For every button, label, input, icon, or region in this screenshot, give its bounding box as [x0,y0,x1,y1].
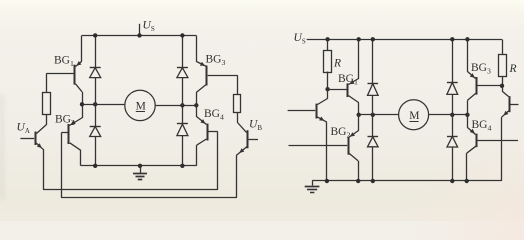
svg-text:UB: UB [249,119,262,132]
svg-text:US: US [294,32,306,45]
svg-text:BG2: BG2 [331,126,351,139]
svg-text:BG3: BG3 [471,62,491,75]
svg-text:M: M [409,110,419,122]
svg-text:R: R [333,58,341,70]
svg-text:BG3: BG3 [206,54,226,67]
svg-text:BG4: BG4 [472,119,492,132]
svg-text:BG1: BG1 [338,73,358,86]
svg-text:BG4: BG4 [204,108,224,121]
svg-text:UA: UA [17,122,30,135]
svg-text:BG1: BG1 [54,55,74,68]
svg-text:R: R [509,63,517,75]
svg-text:US: US [143,20,155,33]
svg-text:M: M [136,101,146,113]
svg-text:BG2: BG2 [55,114,75,127]
